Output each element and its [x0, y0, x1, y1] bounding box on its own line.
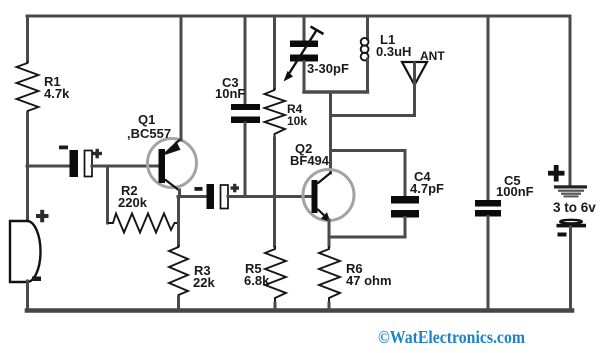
inductor L1 stem top [366, 16, 369, 39]
svg-text:4.7pF: 4.7pF [410, 181, 444, 196]
resistor R4 [265, 88, 286, 138]
svg-text:4.7k: 4.7k [44, 86, 70, 101]
resistor R6 [319, 246, 340, 303]
wire tank to Q2 collector [329, 92, 332, 173]
wire Q1 emitter to top rail [180, 16, 183, 140]
capacitor C1 positive plate [85, 151, 93, 177]
svg-text:©WatElectronics.com: ©WatElectronics.com [378, 327, 525, 347]
svg-text:3-30pF: 3-30pF [307, 61, 349, 76]
wire L1 stem bottom [366, 59, 369, 92]
resistor R5 [265, 246, 286, 303]
battery positive terminal plates [554, 185, 587, 188]
wire Q1 collector stub [178, 190, 181, 197]
transistor Q1 BC557 [148, 139, 197, 188]
svg-text:47 ohm: 47 ohm [346, 273, 392, 288]
capacitor C2 positive plate [221, 185, 229, 209]
variable capacitor CV 3-30pF stem top [303, 16, 306, 44]
resistor R3 [169, 245, 188, 297]
wire tank bottom [304, 90, 368, 93]
transistor Q2 BF494 [303, 170, 354, 221]
wire R4 stem top [273, 16, 276, 88]
wire collector to C2 [178, 195, 207, 198]
svg-text:220k: 220k [118, 195, 148, 210]
svg-text:3 to 6v: 3 to 6v [553, 200, 596, 215]
C2 minus label [195, 187, 203, 191]
svg-text:0.3uH: 0.3uH [376, 44, 411, 59]
CV trimmer arrow [288, 30, 318, 77]
wire C5 bottom [487, 217, 490, 310]
wire Q2 emitter vertical [328, 220, 331, 246]
wire antenna to collector [331, 114, 415, 117]
capacitor C3 [231, 104, 260, 110]
wire left vertical mid [26, 113, 29, 222]
capacitor C1 electrolytic negative plate [70, 150, 79, 177]
resistor R1 [17, 61, 39, 113]
wire R6 to bottom rail [328, 303, 331, 309]
wire battery to bottom rail [569, 227, 572, 309]
wire left vertical upper [26, 16, 29, 61]
wire C5 top [487, 16, 490, 200]
C1 plus label [93, 149, 103, 159]
antenna ANT [402, 62, 427, 85]
wire top rail [27, 15, 570, 18]
wire R5 to bottom rail [274, 303, 277, 309]
C1 minus label [59, 146, 68, 150]
wire C3 bottom to base wire [244, 123, 247, 196]
battery BT1 plus sign [548, 165, 565, 182]
wire C4 to Q2 emitter [329, 236, 405, 239]
svg-text:100nF: 100nF [496, 184, 534, 199]
svg-text:BF494: BF494 [290, 153, 330, 168]
svg-text:,BC557: ,BC557 [127, 126, 171, 141]
wire bottom rail [27, 308, 572, 313]
wire C3 top [244, 16, 247, 104]
svg-text:10nF: 10nF [215, 86, 245, 101]
variable capacitor CV plates [290, 41, 318, 48]
svg-text:ANT: ANT [420, 49, 445, 63]
wire R4 to R5 [273, 138, 276, 246]
wire node A branch to C1 [27, 165, 70, 168]
svg-text:6.8k: 6.8k [244, 273, 270, 288]
wire R2 left leg [106, 166, 109, 223]
wire antenna stem [413, 63, 416, 116]
capacitor C2 electrolytic negative plate [207, 184, 215, 209]
battery negative terminal plates [560, 220, 582, 224]
wire R3 to bottom rail [177, 297, 180, 309]
wire C4 top stem [404, 151, 407, 197]
svg-text:22k: 22k [193, 275, 215, 290]
capacitor C4 [391, 196, 419, 204]
C2 plus label [231, 184, 240, 193]
svg-text:10k: 10k [287, 114, 307, 128]
wire CV stem bottom [303, 62, 306, 93]
svg-text:Q1: Q1 [138, 112, 155, 127]
wire collector node vertical to R3 [177, 197, 180, 246]
inductor L1 coil [361, 38, 369, 61]
microphone MIC [10, 221, 41, 282]
mic minus sign [32, 277, 41, 282]
capacitor C5 [475, 200, 501, 207]
wire C1 to Q1 base [92, 165, 159, 168]
wire collector to C4 [331, 149, 406, 152]
mic plus sign [36, 210, 49, 223]
battery minus sign [558, 233, 567, 237]
resistor R2 [108, 214, 179, 233]
wire C2 to Q2 base [228, 195, 312, 198]
wire right vertical to battery [569, 16, 572, 186]
wire C4 bottom stem [404, 218, 407, 238]
wire left vertical lower [26, 281, 29, 309]
